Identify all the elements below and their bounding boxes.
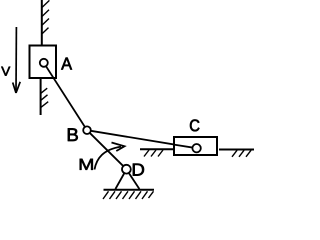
label M bbox=[80, 159, 93, 170]
wall lower hatches bbox=[41, 88, 48, 107]
pin joint B bbox=[83, 126, 91, 134]
label A bbox=[61, 58, 72, 70]
right rail of slider C bbox=[219, 149, 254, 151]
moment arc M bbox=[95, 147, 122, 170]
left rail hatches bbox=[144, 150, 163, 157]
link end into C bbox=[174, 145, 197, 149]
velocity arrow V bbox=[13, 27, 21, 93]
wall upper hatches bbox=[42, 0, 49, 33]
link B-D bbox=[87, 130, 126, 169]
ground line at D bbox=[104, 189, 155, 191]
moment arrowhead bbox=[112, 143, 125, 152]
pin joint C bbox=[192, 144, 200, 152]
pin joint A bbox=[40, 59, 48, 67]
ground hatches at D bbox=[103, 191, 154, 199]
wall upper rail bbox=[41, 0, 43, 46]
slider block A bbox=[30, 46, 57, 79]
label B bbox=[68, 128, 78, 141]
pin joint D bbox=[122, 165, 131, 174]
link B-C bbox=[87, 130, 197, 148]
left rail of slider C bbox=[140, 148, 173, 150]
label C bbox=[190, 120, 199, 132]
slider block C bbox=[174, 137, 217, 155]
right rail hatches bbox=[232, 150, 251, 157]
wall lower rail bbox=[40, 79, 42, 115]
label V bbox=[1, 67, 10, 76]
label D bbox=[133, 164, 144, 176]
link A-B bbox=[44, 63, 87, 130]
support D triangle bbox=[115, 171, 139, 190]
